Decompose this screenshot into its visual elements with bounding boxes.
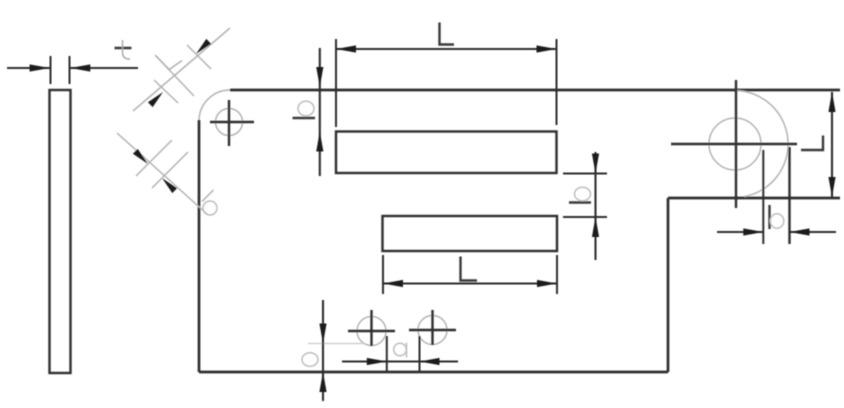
right b extension line left: [762, 150, 764, 244]
dimension t extension line left: [50, 56, 52, 84]
vertical a arrow bottom: [319, 372, 326, 392]
slot 1 rectangle: [336, 132, 557, 174]
label b slot1 bowl: [298, 101, 314, 116]
inter-slot b tick lower: [563, 216, 607, 218]
label t stem: [123, 40, 131, 59]
slot 2 rectangle: [383, 216, 558, 251]
diagonal dimension L extension line 2: [154, 80, 178, 103]
right b arrow right: [790, 228, 810, 235]
bottom hole 2 crosshair vertical: [431, 310, 433, 345]
label L slot1: [440, 23, 455, 45]
dimension t arrow left: [30, 64, 50, 71]
label a bottom bowl: [394, 343, 407, 356]
diagonal dimension L arrow upper: [196, 39, 211, 54]
slot 1 L extension line right: [556, 39, 558, 125]
diagonal dimension b arrow upper: [133, 149, 148, 164]
right L arrow top: [828, 92, 835, 112]
slot 2 L arrow right: [537, 280, 557, 287]
slot 1 L dimension line: [336, 48, 557, 50]
vertical a faint extension line: [308, 343, 364, 345]
plate top-right corner arc: [735, 91, 788, 197]
label b slot1 stem: [293, 117, 316, 119]
inter-slot b tick upper: [563, 173, 607, 175]
plate step horizontal edge: [668, 197, 840, 200]
diagonal dimension b arrow lower: [162, 178, 177, 193]
bottom a extension line 2: [419, 336, 421, 373]
label L diagonal: [156, 56, 182, 70]
bottom hole 2 circle: [418, 316, 447, 345]
diagonal dimension b extension line 2: [152, 152, 188, 188]
right hole crosshair vertical: [735, 80, 737, 208]
slot 2 L extension line right: [556, 255, 558, 294]
label b inter-slot stem: [569, 201, 591, 203]
label L right: [801, 136, 823, 151]
slot 1 b arrow top: [316, 67, 323, 87]
label b inter-slot bowl: [575, 187, 591, 201]
bottom a extension line 1: [386, 336, 388, 373]
bottom hole 1 crosshair vertical: [370, 310, 372, 346]
bottom hole 1 crosshair horizontal: [348, 330, 395, 332]
inter-slot b dimension line: [594, 152, 596, 260]
slot 1 L arrow right: [537, 45, 557, 52]
bottom hole 2 crosshair horizontal: [409, 329, 456, 331]
label b right stem: [768, 205, 770, 229]
slot 2 L dimension line: [383, 282, 557, 284]
slot 2 L extension line left: [382, 255, 384, 294]
plate top edge: [230, 89, 840, 92]
dimension t extension line right: [69, 56, 71, 84]
label L slot2: [461, 257, 478, 281]
right hole crosshair horizontal: [671, 143, 797, 145]
vertical a arrow top: [319, 324, 326, 344]
plate bottom edge: [199, 371, 668, 374]
top-left hole circle: [216, 109, 243, 136]
vertical a dimension line: [322, 300, 324, 401]
right b arrow left: [743, 228, 763, 235]
label t crossbar: [115, 47, 132, 49]
right L arrow bottom: [828, 177, 835, 197]
bottom hole 1 circle: [357, 317, 386, 346]
dimension t arrow right: [70, 64, 90, 71]
bottom a dimension line: [342, 360, 458, 362]
label b diagonal bowl: [203, 201, 217, 215]
top-left hole crosshair horizontal: [210, 121, 254, 123]
side view plate rectangle: [50, 90, 71, 373]
right L dimension line: [831, 92, 833, 197]
bottom a arrow right: [420, 358, 440, 365]
diagonal dimension b extension line 1: [136, 140, 172, 176]
plate right edge: [788, 147, 790, 244]
slot 1 b dimension line: [319, 48, 321, 176]
right b dimension line right segment: [790, 231, 837, 233]
plate top-left corner arc: [199, 90, 230, 121]
plate left edge: [198, 120, 201, 372]
right b dimension line left segment: [717, 231, 763, 233]
bottom a arrow left: [367, 358, 387, 365]
diagonal slot edge line: [155, 55, 194, 96]
diagonal dimension L line: [133, 28, 230, 111]
right hole inner circle: [709, 118, 761, 170]
diagonal dimension L arrow lower: [148, 92, 163, 107]
diagonal dimension b line: [117, 133, 207, 214]
inter-slot b arrow top: [592, 154, 599, 174]
label b right bowl: [770, 214, 784, 228]
slot 1 L arrow left: [336, 45, 356, 52]
label a vertical bowl: [302, 353, 318, 367]
plate step vertical edge: [667, 198, 670, 372]
slot 1 L extension line left: [335, 39, 337, 127]
inter-slot b arrow bottom: [592, 217, 599, 237]
top-left hole crosshair vertical: [228, 100, 230, 146]
label a bottom stem: [406, 343, 408, 358]
slot 2 L arrow left: [383, 280, 403, 287]
slot 1 b arrow bottom: [316, 132, 323, 152]
label b diagonal stem: [202, 190, 214, 202]
diagonal dimension L extension line 1: [187, 45, 211, 69]
dimension t line right segment: [70, 67, 138, 69]
dimension t line left segment: [7, 67, 50, 69]
